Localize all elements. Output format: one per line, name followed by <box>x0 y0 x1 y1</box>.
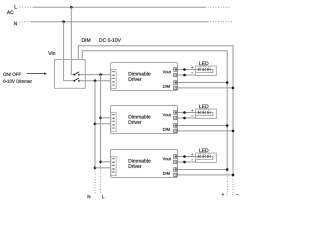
switch S2 (N pole) <box>74 78 80 82</box>
label - LED 3 <box>191 159 193 161</box>
wire DIM+ riser from dimmer top <box>81 51 83 60</box>
junction L feed driver 3 <box>99 161 102 164</box>
label - LED 1 <box>191 72 193 74</box>
junction switched L feed <box>99 73 102 76</box>
terminal DIM- driver 1 <box>174 86 177 89</box>
wire DIM+ driver 1 to bus <box>178 82 228 84</box>
terminal DIM- driver 3 <box>174 173 177 176</box>
junction DIM+ bus driver 2 <box>226 124 229 127</box>
terminal Vout- driver 1 <box>174 73 177 76</box>
junction Vout- driver 1 <box>183 74 186 77</box>
terminal DIM+ driver 3 <box>174 168 177 171</box>
wire N drop to dimmer <box>63 22 65 81</box>
junction DIM- bus driver 2 <box>232 130 235 133</box>
wire DIM+ driver 3 to bus <box>178 169 228 171</box>
junction N feed driver 2 <box>94 123 97 126</box>
wire L dashed lead-in <box>20 6 34 8</box>
pin label DIM driver 1 <box>163 85 170 88</box>
input terminal block driver 2 <box>111 112 116 131</box>
pin label DIM driver 3 <box>163 172 170 175</box>
wire DIM+ right vertical bus <box>226 50 228 169</box>
wire L dashed continuation right <box>205 6 231 8</box>
junction Vout+ driver 2 <box>183 111 186 114</box>
terminal Vout+ driver 3 <box>174 155 177 158</box>
label 0-10V Dimmer <box>3 80 32 83</box>
wire LED string anode 2 <box>196 112 198 114</box>
wire Vout- driver 2 <box>178 117 196 119</box>
pin label DIM driver 2 <box>163 128 170 131</box>
dimmable driver U2 <box>111 106 178 134</box>
wire L dashed continuation bottom <box>100 163 102 194</box>
wire N elbow to switch <box>64 80 75 82</box>
label + LED 1 <box>191 67 193 69</box>
wire LED string anode 1 <box>196 69 198 71</box>
input terminal block driver 1 <box>111 69 116 88</box>
junction N feed driver 3 <box>94 167 97 170</box>
net label AC <box>7 11 14 15</box>
wire Vout+ driver 1 <box>178 69 196 71</box>
wire N dashed continuation bottom <box>94 169 96 194</box>
wire DIM- driver 1 to bus <box>178 87 234 89</box>
label - (DIM- bus) <box>236 193 238 195</box>
label + LED 2 <box>191 110 193 112</box>
terminal Vout- driver 3 <box>174 160 177 163</box>
net label L (AC line) <box>15 5 17 8</box>
label ON/ OFF <box>3 73 21 76</box>
label - LED 2 <box>191 115 193 117</box>
wire DIM- riser from dimmer top <box>77 46 79 60</box>
wire DIM- right vertical bus <box>232 45 234 175</box>
junction DIM- bus driver 3 <box>232 174 235 177</box>
LED D32 <box>203 154 208 159</box>
label DIM <box>82 38 90 41</box>
terminal DIM- driver 2 <box>174 129 177 132</box>
dimmable driver U1 <box>111 63 178 91</box>
wire DIM- driver 2 to bus <box>178 130 234 132</box>
wire DIM- horizontal bus <box>78 45 233 47</box>
LED D22 <box>203 110 208 115</box>
pin label Vout driver 1 <box>163 70 171 73</box>
net label N (AC neutral) <box>14 22 17 25</box>
wire L branch to driver 2 <box>101 117 111 119</box>
wire L elbow to switch <box>71 74 74 76</box>
wire N main horizontal <box>31 21 208 23</box>
annotation arrow to dimmer <box>27 73 45 75</box>
wire LED string return 1 <box>196 70 213 73</box>
label LED 3 <box>199 149 208 152</box>
terminal DIM+ driver 1 <box>174 81 177 84</box>
wire Vout- driver 1 <box>178 74 196 76</box>
wire DIM- dashed continuation down <box>232 176 234 197</box>
terminal DIM+ driver 2 <box>174 124 177 127</box>
wire L main horizontal <box>34 6 206 8</box>
label DC 0-10V <box>99 38 121 42</box>
dimmable driver U3 <box>111 150 178 178</box>
label + (DIM+ bus) <box>222 193 224 195</box>
wire DIM+ driver 2 to bus <box>178 125 228 127</box>
wire N branch to driver 3 <box>95 167 111 169</box>
pin label Vout driver 2 <box>163 113 171 116</box>
wire Vout+ driver 2 <box>178 112 196 114</box>
wire switched N to driver 1 <box>79 80 111 82</box>
junction on L line <box>70 6 73 9</box>
terminal Vout+ driver 2 <box>174 111 177 114</box>
wire DIM+ horizontal bus <box>82 50 227 52</box>
LED D13 <box>207 67 210 72</box>
LED module box 3 <box>196 153 217 163</box>
junction Vout+ driver 1 <box>183 68 186 71</box>
LED D21 <box>198 110 203 115</box>
wire Vout- driver 3 <box>178 161 196 163</box>
wire LED string anode 3 <box>196 156 198 158</box>
wire N branch to driver 2 <box>95 123 111 125</box>
LED D33 <box>207 154 210 159</box>
wire L drop to dimmer <box>70 7 72 74</box>
label LED 2 <box>199 105 208 108</box>
pin label Vout driver 3 <box>163 157 171 160</box>
wire N dashed continuation right <box>208 21 234 23</box>
label + LED 3 <box>191 154 193 156</box>
net label L bottom <box>102 195 104 198</box>
LED module box 1 <box>196 66 217 76</box>
wire LED string return 3 <box>196 157 213 160</box>
wire switched L to driver 1 <box>79 74 111 76</box>
LED D31 <box>198 154 203 159</box>
junction Vout+ driver 3 <box>183 155 186 158</box>
LED module box 2 <box>196 109 217 119</box>
wire DIM+ dashed continuation down <box>226 171 228 197</box>
wire N dashed lead-in <box>19 21 31 23</box>
junction DIM+ bus driver 1 <box>226 81 229 84</box>
terminal Vout+ driver 1 <box>174 68 177 71</box>
terminal Vout- driver 2 <box>174 116 177 119</box>
junction Vout- driver 2 <box>183 117 186 120</box>
wire switched L vertical feed <box>100 75 102 162</box>
junction DIM+ bus driver 3 <box>226 168 229 171</box>
junction on N line <box>62 20 65 23</box>
switch S1 (L pole) <box>74 72 80 76</box>
wire LED string return 2 <box>196 113 213 116</box>
wire L branch to driver 3 <box>101 161 111 163</box>
junction Vout- driver 3 <box>183 161 186 164</box>
wire DIM- driver 3 to bus <box>178 174 234 176</box>
wire Vout+ driver 3 <box>178 156 196 158</box>
LED D12 <box>203 67 208 72</box>
input terminal block driver 3 <box>111 156 116 175</box>
dimmer box U0 (Vin) <box>55 60 86 89</box>
label Vin <box>48 51 55 55</box>
junction switched N feed <box>94 79 97 82</box>
LED D11 <box>198 67 203 72</box>
label LED 1 <box>199 62 208 65</box>
wire switched N vertical feed <box>94 81 96 168</box>
LED D23 <box>207 110 210 115</box>
junction DIM- bus driver 1 <box>232 87 235 90</box>
junction L feed driver 2 <box>99 117 102 120</box>
net label N bottom <box>88 195 91 198</box>
